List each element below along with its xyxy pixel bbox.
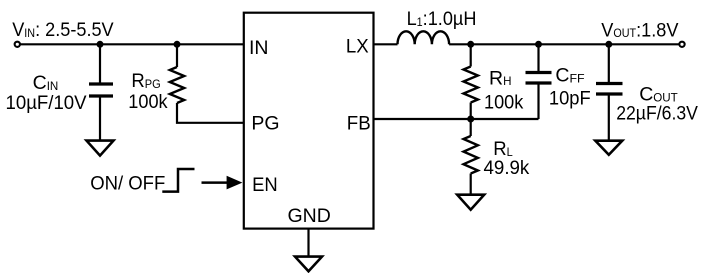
wire RH top lead — [470, 44, 472, 66]
node junction RH — [467, 41, 474, 48]
ground (RL) — [457, 195, 484, 210]
value label RL value — [484, 158, 530, 179]
wire CFF bottom lead — [537, 84, 539, 119]
svg-text:22µF/6.3V: 22µF/6.3V — [616, 102, 698, 124]
wire CFF top lead — [537, 44, 539, 71]
svg-text:ON/ OFF: ON/ OFF — [90, 173, 165, 195]
node junction CFF — [535, 41, 542, 48]
wire GND stub — [307, 229, 309, 257]
capacitor COUT — [596, 84, 623, 95]
output terminal — [679, 42, 684, 47]
inductor L1 — [398, 31, 450, 44]
op-amp U1 (regulator IC box) — [244, 13, 374, 229]
value label CIN value — [6, 92, 87, 113]
ground (COUT) — [595, 141, 622, 155]
resistor RH — [464, 67, 478, 103]
svg-text:LX: LX — [346, 36, 369, 58]
step waveform symbol — [162, 169, 194, 192]
node VIN label — [12, 19, 114, 41]
svg-text:FB: FB — [347, 112, 371, 134]
svg-text:GND: GND — [288, 205, 331, 227]
value label RL — [493, 139, 513, 161]
wire RL top lead — [470, 119, 472, 136]
wire RPG bottom lead — [177, 103, 244, 123]
wire FB — [374, 118, 539, 120]
wire EN arrow shaft — [202, 181, 230, 184]
wire VOUT rail — [449, 43, 679, 45]
value label CFF value — [549, 88, 591, 110]
value label CFF — [555, 64, 585, 86]
svg-text:100k: 100k — [484, 91, 524, 113]
svg-text:10pF: 10pF — [549, 88, 591, 110]
svg-text:VOUT:1.8V: VOUT:1.8V — [601, 19, 679, 41]
node junction COUT — [605, 41, 612, 48]
svg-text:IN: IN — [249, 37, 269, 59]
capacitor CFF — [526, 73, 552, 84]
ON/OFF control label — [90, 173, 165, 195]
value label RPG — [131, 71, 160, 93]
value label RH — [489, 67, 511, 89]
svg-text:PG: PG — [251, 112, 279, 134]
value label RH value — [484, 91, 524, 113]
node junction RPG — [174, 41, 181, 48]
capacitor CIN — [89, 84, 113, 96]
wire COUT bottom lead — [608, 95, 610, 141]
input terminal — [15, 42, 20, 47]
svg-text:100k: 100k — [128, 90, 168, 112]
wire COUT top lead — [608, 44, 610, 82]
node VOUT label — [601, 19, 679, 41]
wire RH bottom lead — [470, 103, 472, 120]
svg-text:EN: EN — [252, 174, 278, 196]
wire RPG top lead — [176, 44, 178, 67]
svg-text:49.9k: 49.9k — [484, 158, 530, 179]
svg-text:10µF/10V: 10µF/10V — [6, 92, 87, 113]
wire CIN top lead — [99, 44, 101, 83]
value label CIN — [33, 72, 59, 94]
wire RL bottom lead — [470, 174, 472, 195]
wire VIN rail — [20, 43, 243, 45]
arrowhead into EN — [227, 176, 243, 190]
value label L1 — [407, 8, 477, 30]
value label RPG value — [128, 90, 168, 112]
wire CIN bottom lead — [99, 97, 101, 140]
wire LX stub — [374, 43, 398, 45]
resistor RL — [464, 136, 478, 174]
value label COUT — [639, 84, 678, 106]
node junction RL — [467, 116, 474, 123]
resistor RPG — [170, 67, 184, 103]
node junction CIN — [97, 41, 104, 48]
value label COUT value — [616, 102, 698, 124]
ground (GND pin) — [295, 257, 322, 272]
ground (CIN) — [87, 141, 114, 156]
